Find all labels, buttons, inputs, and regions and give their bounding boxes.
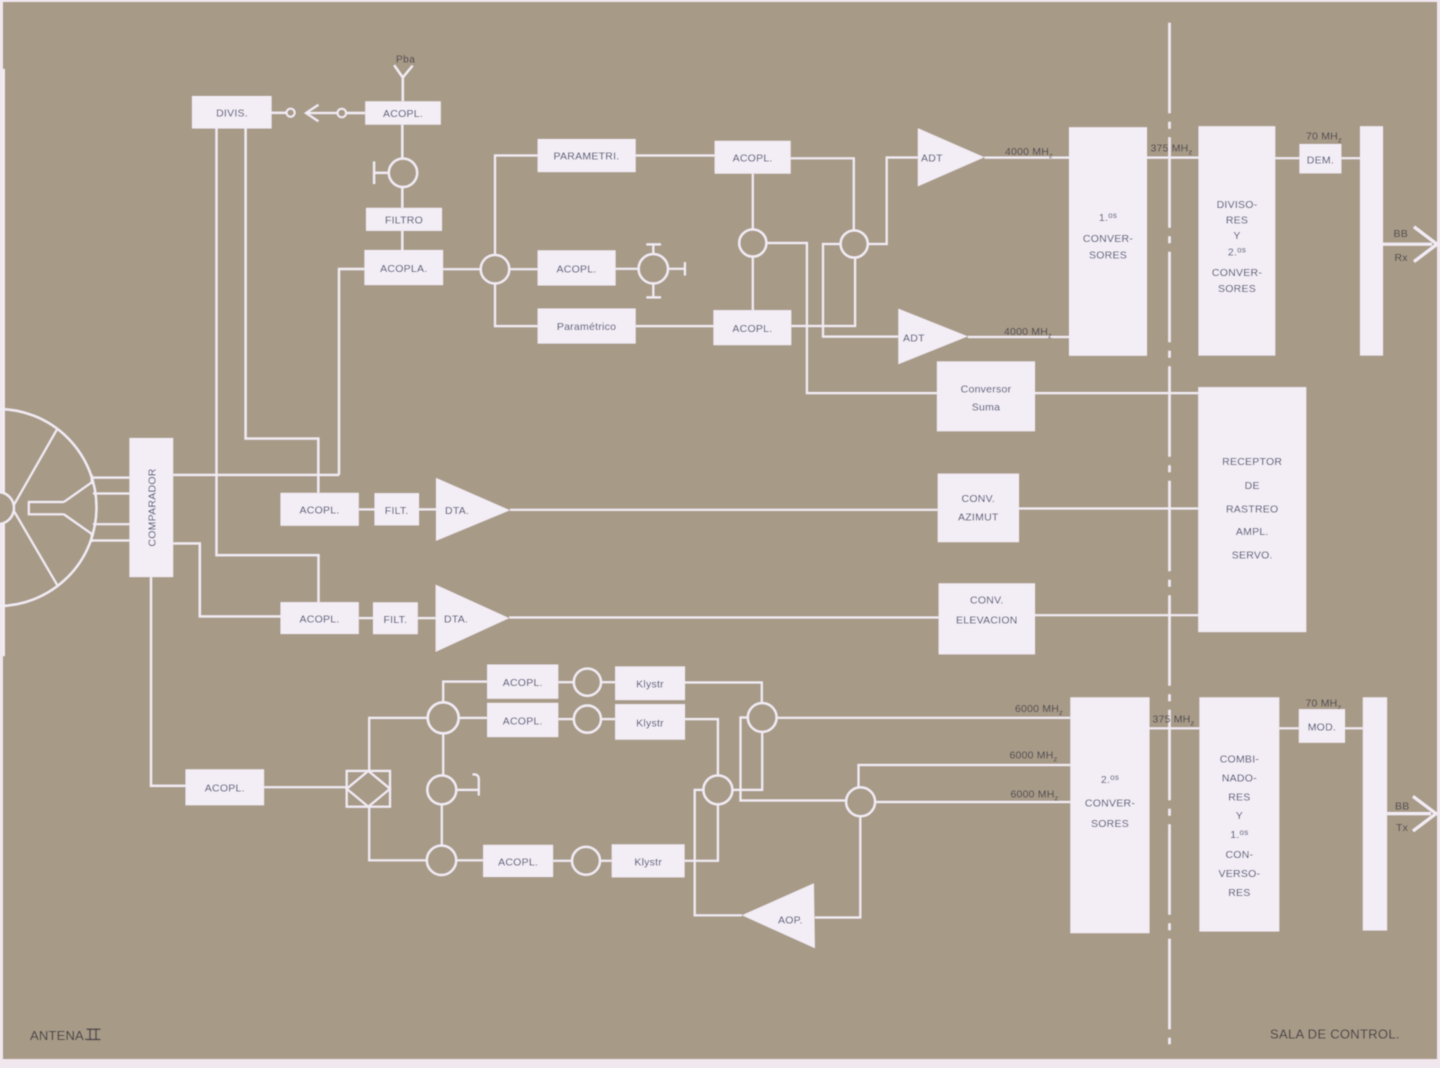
- svg-text:Klystr: Klystr: [634, 857, 662, 869]
- wire G left down to ADT2: [823, 244, 898, 337]
- parametrico box: [538, 309, 636, 344]
- svg-text:70 MHz: 70 MHz: [1306, 131, 1342, 145]
- wire dem - bar: [1341, 157, 1360, 159]
- wire J1 up to parametri: [495, 156, 538, 255]
- feed horn: [29, 475, 92, 543]
- acopla box: [364, 250, 443, 285]
- switch contact b: [338, 109, 347, 118]
- svg-text:6000 MHz: 6000 MHz: [1011, 789, 1059, 803]
- circulator C1: [389, 159, 417, 187]
- DTA az amp: [436, 478, 510, 541]
- svg-text:ACOPL.: ACOPL.: [299, 614, 339, 626]
- C2 stub bottom: [646, 284, 661, 298]
- wire divis-switch: [270, 112, 286, 114]
- svg-text:RASTREO: RASTREO: [1226, 504, 1279, 516]
- svg-text:CONVER-: CONVER-: [1085, 798, 1135, 810]
- acopl2 box: [715, 141, 791, 174]
- svg-text:Conversor: Conversor: [961, 384, 1012, 396]
- wire klystr1 to A: [685, 683, 762, 704]
- C2 stub right: [668, 262, 685, 275]
- cross circulator C2: [639, 254, 668, 283]
- wire acopl3 right up to G: [791, 258, 855, 326]
- svg-text:VERSO-: VERSO-: [1219, 868, 1261, 880]
- combinadores box: [1199, 697, 1279, 931]
- wire B left to AOP output: [695, 790, 742, 915]
- wire A bottom to B: [732, 732, 762, 790]
- svg-text:ADT: ADT: [921, 153, 943, 165]
- wire C right to 2os conversores (6000 line 3): [875, 801, 1070, 803]
- filt elevacion box: [373, 602, 418, 634]
- svg-text:Y: Y: [1233, 230, 1240, 242]
- svg-text:CONV.: CONV.: [970, 595, 1004, 607]
- wire E right to acopl k3: [456, 859, 483, 861]
- wire AOP input from C: [815, 816, 860, 917]
- wire A right to 2os conversores (6000 line 1): [777, 717, 1071, 719]
- wire conv azimut - receptor: [1019, 507, 1198, 509]
- ADT2 amp: [898, 309, 968, 365]
- svg-text:SORES: SORES: [1091, 818, 1129, 830]
- junction C ring: [846, 787, 875, 816]
- svg-text:FILT.: FILT.: [385, 505, 409, 517]
- test antenna Y: [394, 65, 412, 101]
- wire conv elevacion - receptor: [1035, 614, 1198, 616]
- svg-text:CONVER-: CONVER-: [1083, 233, 1133, 245]
- feed wire 1: [91, 477, 129, 479]
- 2os conversores box: [1070, 697, 1149, 933]
- svg-text:SALA DE CONTROL.: SALA DE CONTROL.: [1270, 1027, 1400, 1042]
- junction A ring: [748, 703, 777, 732]
- junction J1 ring: [481, 255, 510, 284]
- svg-text:Tx: Tx: [1396, 822, 1409, 834]
- dish spoke upper: [11, 429, 58, 511]
- 1os conversores box: [1069, 127, 1147, 356]
- wire A left down to C: [741, 718, 847, 801]
- wire combinadores - mod: [1279, 727, 1299, 729]
- termination circle F: [427, 775, 456, 804]
- conv elevacion box: [939, 583, 1035, 654]
- svg-text:COMBI-: COMBI-: [1220, 754, 1260, 766]
- ADT1 amp: [918, 128, 985, 186]
- wire acopl-circulator-filtro: [401, 125, 403, 159]
- conversor suma box: [937, 361, 1035, 431]
- svg-text:FILT.: FILT.: [383, 614, 407, 626]
- wire parametri - acopl2: [636, 154, 715, 156]
- svg-text:6000 MHz: 6000 MHz: [1010, 750, 1058, 764]
- wire divis line B (to azimut coupler): [246, 129, 319, 493]
- svg-text:CONV.: CONV.: [962, 493, 996, 505]
- patch bar (tx): [1363, 697, 1387, 930]
- wire ADT1 - 1os conversores: [984, 157, 1069, 159]
- wire comparador el output: [173, 543, 280, 616]
- svg-text:ACOPL.: ACOPL.: [556, 264, 596, 276]
- wire divisores - dem: [1275, 157, 1299, 159]
- wire J1 right to acopl mid: [509, 268, 537, 270]
- arrow BB Rx: [1383, 227, 1437, 262]
- svg-text:ACOPLA.: ACOPLA.: [380, 263, 427, 275]
- hybrid square: [347, 771, 390, 807]
- klystr2 box: [615, 704, 685, 740]
- svg-text:4000 MHz: 4000 MHz: [1004, 326, 1052, 340]
- wire acopl2 right over to G: [791, 158, 854, 230]
- svg-text:AMPL.: AMPL.: [1236, 526, 1269, 538]
- acopl k1 box: [487, 665, 558, 699]
- wire B bottom to klystr3 line: [685, 804, 718, 860]
- wire Jt right to acopl k2: [459, 717, 487, 719]
- junction B ring: [703, 775, 732, 804]
- antenna dish rim: [0, 409, 97, 606]
- junction E ring: [427, 846, 456, 875]
- dish spoke lower: [11, 506, 58, 586]
- svg-text:ACOPL.: ACOPL.: [733, 153, 773, 165]
- svg-text:ACOPL.: ACOPL.: [503, 677, 543, 689]
- acopl k3 box: [483, 845, 553, 877]
- wire acopl el - filt el: [359, 617, 373, 619]
- svg-text:6000 MHz: 6000 MHz: [1015, 703, 1063, 717]
- C2 stub top: [646, 244, 661, 254]
- wire filtro-acopla: [401, 231, 403, 250]
- svg-text:ACOPL.: ACOPL.: [383, 108, 423, 120]
- wire klystr2 to B: [685, 719, 718, 775]
- svg-text:RES: RES: [1228, 792, 1250, 804]
- svg-text:375 MHz: 375 MHz: [1153, 714, 1195, 728]
- klystr1 box: [615, 666, 685, 700]
- circulator C1 stub: [374, 162, 389, 185]
- wire G right up to ADT1: [868, 158, 918, 245]
- svg-text:Rx: Rx: [1395, 252, 1409, 264]
- svg-text:ACOPL.: ACOPL.: [732, 323, 772, 335]
- svg-text:ACOPL.: ACOPL.: [503, 716, 543, 728]
- svg-text:BB: BB: [1395, 801, 1409, 813]
- wire acopl k2 - iso2: [558, 718, 574, 720]
- divis box: [192, 96, 272, 129]
- switch arrow: [306, 105, 337, 122]
- wire H right to conversor suma: [766, 243, 937, 393]
- svg-text:DEM.: DEM.: [1307, 155, 1334, 167]
- filt azimut box: [375, 493, 420, 525]
- wire acopl k3 - iso3: [553, 860, 572, 862]
- svg-text:SORES: SORES: [1218, 283, 1256, 295]
- svg-text:SERVO.: SERVO.: [1232, 550, 1273, 562]
- svg-text:Klystr: Klystr: [636, 718, 664, 730]
- wire mod - bar: [1345, 727, 1363, 729]
- wire filt el - dta el: [418, 617, 436, 619]
- svg-text:FILTRO: FILTRO: [385, 215, 423, 227]
- wire iso1 - klystr1: [601, 681, 615, 683]
- svg-text:Suma: Suma: [972, 402, 1000, 414]
- svg-text:MOD.: MOD.: [1308, 722, 1336, 734]
- isolator ring 1: [574, 669, 601, 696]
- parametri box: [538, 139, 636, 172]
- wire 1os conversores - divisores: [1147, 157, 1199, 159]
- junction Jt ring: [428, 702, 459, 733]
- acopl azimut box: [281, 493, 359, 526]
- dashed separator antena/sala: [1168, 24, 1171, 1043]
- wire switch-acopl: [346, 112, 365, 114]
- svg-text:Pba: Pba: [396, 55, 415, 66]
- wire parametrico - acopl3: [636, 325, 714, 327]
- wire iso2 - klystr2: [601, 718, 615, 720]
- acopl tx box: [186, 769, 265, 805]
- wire Jt up to acopl k1: [443, 682, 487, 703]
- acopl mid box: [538, 250, 616, 285]
- isolator ring 2: [574, 706, 601, 733]
- acopl box (test): [365, 101, 441, 124]
- wire hybrid top to Jt: [369, 718, 427, 771]
- AOP amp: [742, 883, 815, 948]
- svg-text:ACOPL.: ACOPL.: [299, 505, 339, 517]
- termination stub: [456, 774, 479, 795]
- wire 2os - combinadores: [1150, 727, 1200, 729]
- feed wire 3: [93, 523, 129, 525]
- acopl k2 box: [487, 703, 558, 737]
- junction H ring: [739, 229, 766, 256]
- wire acopla to comparador (sum channel riser): [339, 269, 364, 475]
- wire ADT2 - 1os conversores: [968, 336, 1069, 338]
- wire acopl2 down to H: [752, 174, 754, 230]
- hybrid diamond: [347, 771, 390, 807]
- wire C top to 2os conversores (6000 line 2): [859, 765, 1071, 788]
- wire dta el - conv elevacion: [509, 616, 938, 618]
- svg-text:CONVER-: CONVER-: [1212, 267, 1262, 279]
- patch bar (rx): [1360, 126, 1383, 355]
- svg-text:DE: DE: [1245, 480, 1260, 492]
- svg-text:NADO-: NADO-: [1222, 773, 1257, 785]
- wire iso3 - klystr3: [600, 860, 612, 862]
- svg-text:375 MHz: 375 MHz: [1151, 143, 1193, 157]
- wire Jt down to term: [442, 733, 444, 775]
- svg-text:4000 MHz: 4000 MHz: [1005, 146, 1053, 160]
- wire J1 down to parametrico: [495, 284, 538, 327]
- feed wire 4: [91, 539, 129, 541]
- acopl3 box: [713, 310, 791, 345]
- wire circulator-filtro: [401, 187, 403, 208]
- svg-text:RES: RES: [1226, 215, 1248, 227]
- isolator ring 3: [572, 847, 600, 875]
- conv azimut box: [938, 474, 1019, 543]
- svg-text:Y: Y: [1236, 810, 1243, 822]
- left edge line: [3, 70, 5, 655]
- svg-text:ADT: ADT: [903, 333, 925, 345]
- wire H down to acopl3: [752, 257, 754, 311]
- wire hybrid bottom to E: [369, 807, 427, 861]
- wire acopl mid - cross circulator: [616, 268, 639, 270]
- svg-text:RECEPTOR: RECEPTOR: [1222, 456, 1282, 468]
- mod box: [1299, 709, 1345, 743]
- svg-text:BB: BB: [1394, 228, 1408, 240]
- svg-text:DIVISO-: DIVISO-: [1217, 199, 1258, 211]
- svg-text:ACOPL.: ACOPL.: [205, 783, 245, 795]
- arrow BB Tx: [1387, 796, 1436, 831]
- wire comparador tx output: [151, 577, 186, 786]
- wire F down to E: [441, 804, 443, 845]
- acopl elevacion box: [281, 602, 359, 634]
- svg-text:DTA.: DTA.: [445, 505, 469, 517]
- svg-text:COMPARADOR: COMPARADOR: [147, 468, 159, 546]
- svg-text:AOP.: AOP.: [778, 915, 803, 927]
- wire acopl k1 - iso1: [558, 681, 574, 683]
- DTA el amp: [436, 585, 510, 652]
- junction G ring: [841, 230, 868, 257]
- klystr3 box: [612, 844, 685, 877]
- filtro box: [366, 208, 442, 231]
- wire acopl tx - hybrid: [264, 786, 347, 788]
- svg-text:PARAMETRI.: PARAMETRI.: [554, 151, 620, 163]
- wire comparador sum output: [173, 474, 339, 476]
- receptor box: [1198, 387, 1306, 632]
- wire acopl az - filt az: [359, 508, 375, 510]
- wire filt az - dta az: [419, 508, 436, 510]
- svg-text:CON-: CON-: [1225, 849, 1253, 861]
- svg-text:RES: RES: [1228, 887, 1250, 899]
- svg-text:ACOPL.: ACOPL.: [498, 857, 538, 869]
- dish hub: [0, 492, 14, 524]
- divisores y 2os conversores box: [1199, 126, 1276, 355]
- wire conversor suma - receptor: [1035, 392, 1198, 394]
- wire dta az - conv azimut: [510, 509, 938, 511]
- svg-text:SORES: SORES: [1089, 250, 1127, 262]
- svg-text:AZIMUT: AZIMUT: [958, 512, 999, 524]
- wire acopla-J1: [443, 268, 481, 270]
- svg-text:Klystr: Klystr: [636, 679, 664, 691]
- svg-text:Paramétrico: Paramétrico: [557, 321, 616, 333]
- comparador box: [129, 438, 173, 577]
- dem box: [1299, 144, 1341, 173]
- svg-text:DIVIS.: DIVIS.: [216, 108, 248, 120]
- svg-text:ELEVACION: ELEVACION: [956, 615, 1018, 627]
- svg-text:ANTENA.: ANTENA.: [30, 1028, 88, 1043]
- switch contact a: [287, 109, 295, 117]
- wire divis line A (to elevation coupler): [217, 129, 319, 603]
- feed wire 2: [93, 492, 129, 494]
- svg-text:DTA.: DTA.: [444, 614, 468, 626]
